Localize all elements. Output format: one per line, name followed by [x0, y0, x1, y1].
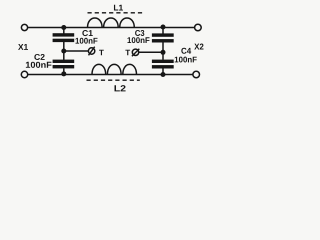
node junction bottom left [61, 71, 66, 76]
inductor L1 [88, 18, 135, 28]
terminal T right circle [132, 49, 138, 55]
label X1 [18, 44, 28, 50]
wire C3 column upper [162, 27, 164, 34]
node junction right T tap [161, 50, 166, 55]
capacitor C2 plates [53, 60, 75, 63]
wire top rail left [28, 27, 195, 29]
terminal T left slash [89, 47, 95, 56]
terminal T right slash [132, 49, 139, 57]
label L1 [114, 5, 123, 11]
wire C2 column lower [63, 68, 65, 74]
wire C1 column upper [63, 28, 65, 34]
capacitor C3 plates [152, 33, 174, 36]
label C2 [34, 54, 44, 60]
wire C4 column lower [162, 68, 164, 74]
label L2 [115, 85, 126, 91]
node junction left T tap [61, 49, 66, 54]
value C1 100nF [76, 38, 98, 44]
capacitor C1 plates [53, 33, 75, 36]
terminal X1 top circle [21, 24, 27, 30]
wire C3 column lower [162, 42, 164, 59]
value C4 100nF [175, 57, 197, 63]
label T right [125, 50, 130, 56]
wire bottom rail left [28, 74, 193, 76]
terminal T left circle [88, 48, 94, 54]
label C4 [181, 48, 191, 54]
wire to right T terminal [139, 51, 163, 53]
label X2 [194, 44, 203, 50]
dashed core line L2 [87, 79, 140, 81]
value C3 100nF [128, 37, 150, 43]
label T left [99, 50, 104, 56]
inductor L2 [92, 64, 136, 74]
node junction top left (C1 tap) [61, 25, 66, 30]
terminal X1 bottom circle [21, 71, 27, 77]
terminal X2 top circle [195, 24, 202, 31]
wire C1 column lower [63, 42, 65, 60]
label C3 [135, 30, 144, 36]
dashed core line L1 [88, 12, 144, 14]
node junction bottom right [161, 72, 166, 77]
label C1 [82, 30, 92, 36]
value C2 100nF [26, 62, 52, 68]
terminal X2 bottom circle [193, 71, 200, 78]
wire to left T terminal [64, 50, 89, 52]
node junction top right (C3 tap) [161, 25, 166, 30]
capacitor C4 plates [152, 60, 174, 63]
